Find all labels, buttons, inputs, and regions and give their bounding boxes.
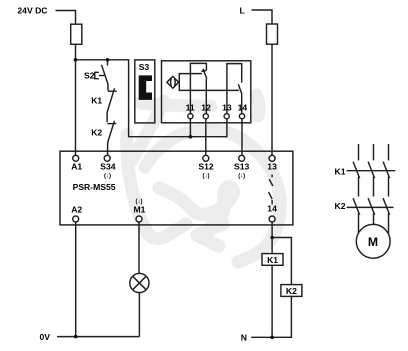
- svg-text:S2: S2: [84, 71, 95, 81]
- svg-text:14: 14: [267, 204, 277, 214]
- svg-text:K1: K1: [91, 96, 102, 106]
- svg-text:M: M: [368, 235, 378, 249]
- svg-text:M1: M1: [134, 205, 146, 215]
- svg-text:S13: S13: [234, 162, 250, 172]
- svg-text:13: 13: [222, 103, 232, 113]
- svg-text:S12: S12: [198, 162, 214, 172]
- svg-text:24V DC: 24V DC: [17, 6, 47, 16]
- svg-text:A1: A1: [71, 162, 82, 172]
- svg-text:K2: K2: [286, 286, 297, 296]
- svg-text:S34: S34: [100, 162, 116, 172]
- svg-text:0V: 0V: [40, 332, 51, 342]
- svg-text:14: 14: [238, 103, 248, 113]
- svg-text:K2: K2: [335, 201, 346, 211]
- svg-text:K1: K1: [267, 255, 278, 265]
- svg-text:K2: K2: [91, 127, 102, 137]
- svg-text:12: 12: [201, 103, 211, 113]
- svg-text:11: 11: [186, 103, 195, 113]
- svg-text:PSR-MS55: PSR-MS55: [73, 182, 116, 192]
- svg-text:S3: S3: [139, 62, 150, 72]
- svg-text:N: N: [241, 332, 247, 342]
- svg-text:L: L: [240, 5, 245, 15]
- svg-text:13: 13: [267, 162, 277, 172]
- svg-text:(↓): (↓): [136, 199, 143, 205]
- svg-text:K1: K1: [335, 166, 346, 176]
- svg-text:(↓): (↓): [203, 174, 210, 180]
- svg-text:(↓): (↓): [104, 174, 111, 180]
- svg-text:A2: A2: [71, 205, 82, 215]
- svg-text:(↓): (↓): [238, 174, 245, 180]
